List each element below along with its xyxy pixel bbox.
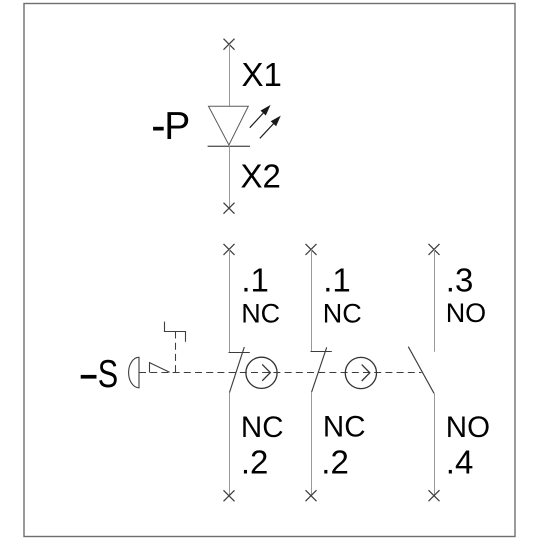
- wire X1 to LED anode: [229, 44, 231, 106]
- svg-text:X1: X1: [242, 56, 282, 93]
- svg-text:S: S: [98, 353, 118, 396]
- wire contact 2 top: [311, 249, 313, 351]
- svg-text:.1: .1: [241, 261, 269, 298]
- svg-text:.2: .2: [321, 443, 349, 480]
- positive-opening circle arrow (contact 2): [345, 357, 376, 388]
- terminal cross contact 3 bottom: [429, 490, 440, 501]
- terminal cross contact 1 bottom: [224, 490, 235, 501]
- NC contact 2 blade: [312, 347, 327, 392]
- LED light arrow 1: [250, 106, 269, 127]
- svg-text:NC: NC: [323, 411, 366, 444]
- LED light arrow 2: [260, 117, 280, 138]
- svg-text:NO: NO: [446, 298, 487, 328]
- terminal cross contact 2 top: [306, 244, 317, 255]
- svg-text:NC: NC: [323, 298, 362, 328]
- wire contact 2 bottom: [311, 392, 313, 496]
- NC contact 2 seat: [311, 351, 332, 353]
- wire LED cathode to X2: [229, 146, 231, 208]
- svg-text:.3: .3: [446, 261, 474, 298]
- latch hook: [165, 322, 186, 342]
- wire contact 1 bottom: [229, 393, 231, 496]
- dashed mechanical link vertical: [175, 332, 177, 373]
- svg-text:.4: .4: [446, 444, 474, 481]
- NC contact 1 seat: [229, 352, 250, 354]
- svg-text:NC: NC: [241, 298, 280, 328]
- wire contact 3 top: [434, 249, 436, 351]
- plunger wedge: [150, 363, 170, 373]
- svg-text:.2: .2: [241, 443, 269, 480]
- svg-text:P: P: [164, 105, 190, 148]
- terminal cross X2 (lamp bottom connection): [224, 203, 235, 214]
- LED cathode bar: [208, 145, 250, 147]
- terminal cross contact 1 top: [224, 244, 235, 255]
- label -S dash: [81, 375, 97, 379]
- dashed mechanical link horizontal: [139, 372, 422, 374]
- svg-text:X2: X2: [241, 158, 281, 195]
- LED U-P triangle (anode): [209, 106, 249, 145]
- svg-text:.1: .1: [323, 261, 351, 298]
- svg-text:NO: NO: [446, 411, 490, 444]
- wire contact 3 bottom: [434, 393, 436, 495]
- terminal cross contact 3 top: [429, 244, 440, 255]
- terminal cross contact 2 bottom: [306, 490, 317, 501]
- svg-text:NC: NC: [241, 411, 284, 444]
- NC contact 1 blade: [230, 347, 245, 393]
- wire contact 1 top: [229, 249, 231, 352]
- NO contact 3 blade: [408, 347, 434, 394]
- pushbutton cap: [129, 357, 139, 388]
- terminal cross X1 (lamp top connection): [224, 39, 235, 50]
- label -P dash: [153, 127, 164, 131]
- positive-opening circle arrow (contact 1): [246, 357, 277, 388]
